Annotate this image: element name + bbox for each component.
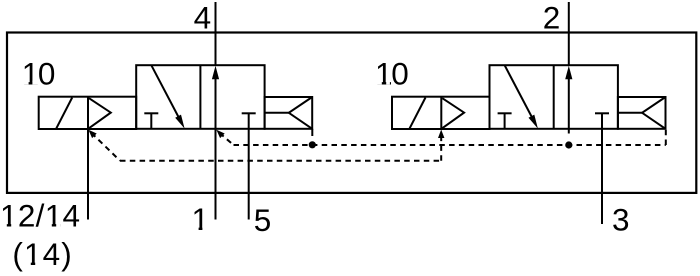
valve V1 air spring box xyxy=(265,97,313,129)
pilot line B horizontal run xyxy=(120,160,441,162)
valve V2 flow path 1-2 arrowhead xyxy=(565,66,572,80)
svg-text:12/14: 12/14 xyxy=(0,198,80,234)
valve V2 air spring box xyxy=(618,97,666,129)
branch stub V1 air spring to dot xyxy=(311,129,313,136)
pilot line A arrowhead at V1 port 1 xyxy=(216,130,224,138)
valve V1 flow path 1-4 arrowhead xyxy=(212,66,219,80)
valve V2 solenoid stroke xyxy=(409,98,425,130)
svg-text:4: 4 xyxy=(194,0,212,35)
valve V2 position divider xyxy=(553,65,555,129)
valve V1 blocked port T (right square) xyxy=(242,112,256,114)
valve V1 solenoid stroke xyxy=(56,98,72,130)
svg-text:2: 2 xyxy=(543,0,561,35)
valve V1 port 4 line (top) xyxy=(215,2,217,65)
valve V2 exhaust path diagonal xyxy=(505,65,533,119)
manifold outline box xyxy=(7,33,696,193)
valve V2 port 2 line (top) xyxy=(568,2,570,65)
valve V2 body squares xyxy=(490,65,618,129)
valve V2 solenoid pilot box xyxy=(392,97,490,129)
valve V2 air spring line xyxy=(618,112,642,114)
valve V2 port 1 stub below body xyxy=(568,129,570,134)
valve V1 exhaust path arrowhead xyxy=(175,115,184,129)
pilot line B diagonal from 12/14 corner xyxy=(91,133,120,161)
valve V1 port 5 line (bottom) xyxy=(248,129,250,220)
valve V1 flow path 1-4 arrow shaft xyxy=(215,76,217,129)
valve V1 port 1 line (bottom) xyxy=(215,129,217,220)
arial-style foot trim for digit 1 of left 10 xyxy=(22,81,29,85)
svg-text:10: 10 xyxy=(375,55,408,91)
svg-text:(14): (14) xyxy=(12,236,72,272)
arial-style foot trim for second 1 of 12/14 xyxy=(46,224,52,228)
valve V1 pilot box divider xyxy=(87,97,89,129)
pilot line B arrowhead at V1 pilot corner xyxy=(88,130,96,138)
svg-text:3: 3 xyxy=(612,202,630,238)
valve V2 flow path 1-2 arrow shaft xyxy=(568,76,570,129)
pilot line A riser to V2 air spring xyxy=(665,129,667,145)
junction dot at V2 port 1 branch xyxy=(565,141,572,148)
pilot line B riser to V2 pilot xyxy=(440,136,442,161)
junction dot at V1 air spring branch xyxy=(309,141,316,148)
svg-text:5: 5 xyxy=(254,202,272,238)
svg-text:1: 1 xyxy=(192,201,210,237)
valve V2 blocked port T (right square) xyxy=(595,112,609,114)
valve V1 external pilot port 12/14 line xyxy=(87,129,89,220)
arial-style foot trim for digit 1 of right 10 xyxy=(376,81,382,85)
valve V2 pilot amplifier triangle xyxy=(442,98,464,128)
valve V1 pilot amplifier triangle xyxy=(89,98,111,128)
valve V2 blocked port T (left square) xyxy=(498,112,512,114)
pilot line A diagonal from port 1 of V1 xyxy=(220,133,234,145)
pilot line A horizontal run xyxy=(234,144,666,146)
arial-style foot trim for first 1 of 12/14 xyxy=(2,224,7,228)
valve V1 position divider xyxy=(199,65,201,129)
arial-style foot trim for digit 1 of (14) xyxy=(25,262,31,266)
valve V1 solenoid pilot box xyxy=(39,97,137,129)
pilot line B arrowhead at V2 pilot xyxy=(438,130,444,139)
valve V2 exhaust path arrowhead xyxy=(529,115,538,129)
arial-style foot trim for port label 1 xyxy=(193,227,199,231)
valve V2 pilot box divider xyxy=(440,97,442,129)
valve V1 air spring triangle xyxy=(289,97,312,129)
valve V1 blocked port T (left square) xyxy=(144,112,158,114)
valve V1 air spring line xyxy=(265,112,289,114)
valve V2 port 3 line (bottom) xyxy=(601,129,603,224)
valve V1 body squares xyxy=(136,65,264,129)
valve V1 exhaust path 4-5 diagonal xyxy=(151,65,179,119)
svg-text:10: 10 xyxy=(22,55,55,91)
valve V2 air spring triangle xyxy=(642,97,665,129)
